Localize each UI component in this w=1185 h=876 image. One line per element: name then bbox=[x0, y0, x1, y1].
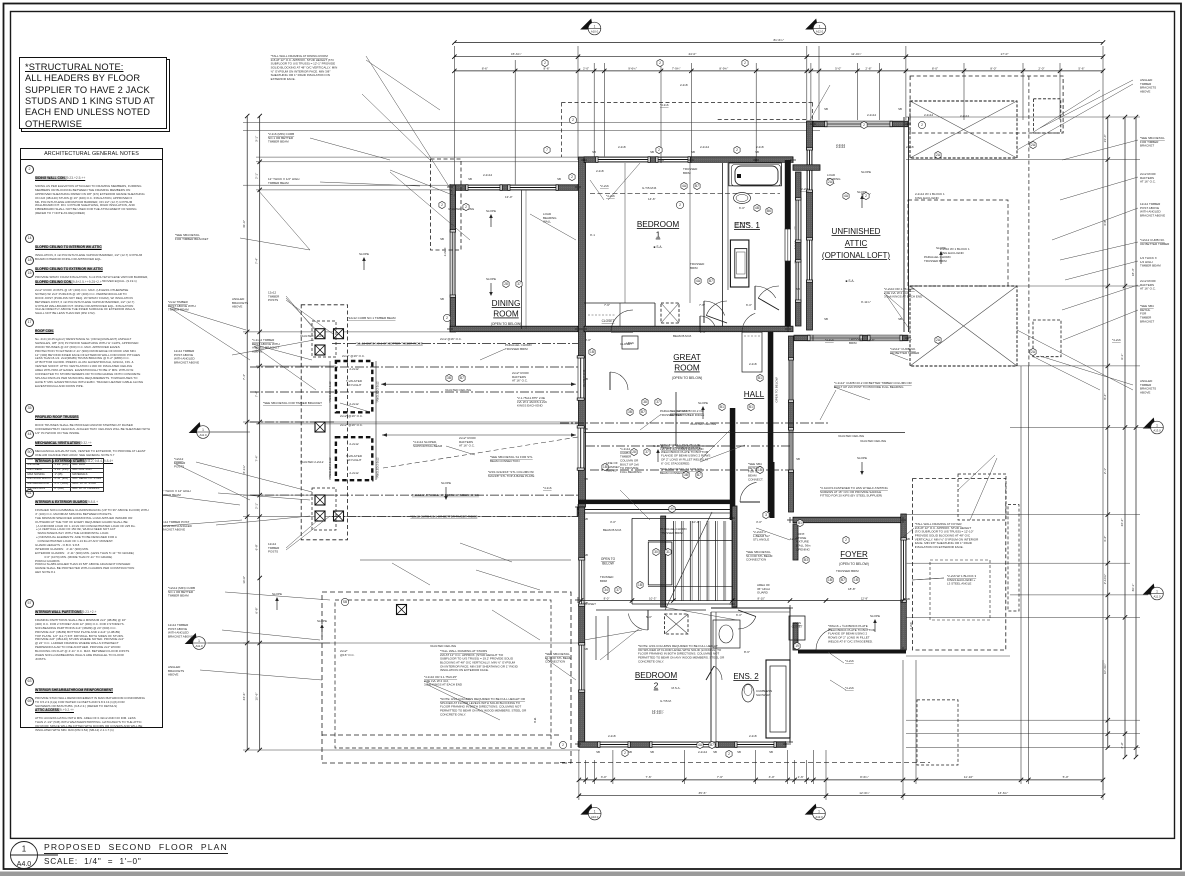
hex symbol 2-42 bbox=[742, 59, 748, 66]
svg-text:■ S.A.: ■ S.A. bbox=[654, 245, 663, 249]
section marker A11.0 left lower bbox=[185, 633, 206, 649]
svg-text:5'-6": 5'-6" bbox=[1078, 66, 1084, 70]
room label dining room bbox=[492, 299, 521, 319]
svg-text:12'-8": 12'-8" bbox=[790, 537, 798, 541]
svg-text:3'-0": 3'-0" bbox=[610, 520, 616, 524]
annotation 103 bbox=[820, 486, 889, 498]
dashed roof line top2 bbox=[718, 119, 806, 121]
svg-text:2'-8": 2'-8" bbox=[865, 66, 871, 70]
svg-text:10'-4¾": 10'-4¾" bbox=[1103, 664, 1107, 674]
svg-text:BELOW: BELOW bbox=[602, 562, 614, 566]
linen xbox bbox=[622, 336, 638, 349]
stair landing lines bbox=[660, 607, 737, 621]
annotation 8 bbox=[1140, 279, 1156, 291]
svg-text:SB: SB bbox=[584, 517, 588, 521]
svg-text:SB: SB bbox=[592, 150, 596, 154]
svg-text:1B: 1B bbox=[828, 578, 832, 582]
leader line 4 bbox=[1032, 90, 1100, 133]
ridge dash-dot line 1 bbox=[332, 343, 578, 345]
hall double door arc B bbox=[706, 301, 727, 323]
annotation 29 bbox=[342, 354, 365, 358]
leader line 17 bbox=[700, 430, 730, 460]
svg-text:SLOPE: SLOPE bbox=[486, 209, 496, 213]
annotation 96 bbox=[825, 338, 834, 342]
top dim row 2 bbox=[452, 52, 1105, 59]
svg-text:BRACKET ABOVE: BRACKET ABOVE bbox=[1140, 214, 1165, 218]
hall divider wall black bbox=[730, 408, 736, 520]
svg-text:VAULTED CEILING: VAULTED CEILING bbox=[445, 388, 472, 392]
svg-text:10'-0": 10'-0" bbox=[692, 520, 700, 524]
svg-text:3'-0": 3'-0" bbox=[601, 775, 607, 779]
annotation 60 bbox=[608, 734, 616, 738]
slope arrow 10 bbox=[317, 619, 327, 637]
annotation 7 bbox=[1140, 256, 1161, 268]
hex symbol B1-28 bbox=[757, 374, 763, 381]
annotation 136 bbox=[483, 173, 493, 177]
svg-text:2x12" @16" O.C.: 2x12" @16" O.C. bbox=[342, 354, 365, 358]
hex symbol B1-31 bbox=[797, 519, 803, 526]
annotation 18 bbox=[268, 542, 280, 554]
annotation 118 bbox=[736, 613, 742, 617]
ens1 right wall window bbox=[785, 229, 791, 261]
annotation 101 bbox=[834, 381, 913, 389]
annotation 16 bbox=[160, 489, 191, 497]
circle symbol 2-4 bbox=[676, 201, 683, 208]
bottom dim row 2 bbox=[577, 791, 1105, 798]
svg-text:*4-2x6: *4-2x6 bbox=[825, 338, 834, 342]
svg-text:2: 2 bbox=[921, 123, 923, 127]
left dashed sub-rect bbox=[312, 321, 336, 357]
svg-text:1B: 1B bbox=[638, 583, 642, 587]
leader line 14 bbox=[620, 490, 650, 520]
annotation 138 bbox=[660, 467, 703, 475]
svg-text:2-2x12: 2-2x12 bbox=[349, 402, 359, 406]
annotation 37 bbox=[459, 436, 476, 448]
svg-text:EXTERIOR FACE.: EXTERIOR FACE. bbox=[271, 77, 296, 81]
svg-text:30: 30 bbox=[654, 550, 658, 554]
annotation 49 bbox=[947, 574, 977, 586]
svg-text:SB: SB bbox=[584, 553, 588, 557]
svg-text:B1: B1 bbox=[720, 405, 724, 409]
svg-text:INSULATION ON EXTERIOR FACE.: INSULATION ON EXTERIOR FACE. bbox=[915, 545, 964, 549]
leader line 15 bbox=[756, 528, 790, 540]
svg-text:3: 3 bbox=[765, 513, 767, 517]
annotation 39 bbox=[517, 396, 547, 408]
svg-text:SKYLIGHT: SKYLIGHT bbox=[347, 458, 362, 462]
ens1 right wall black bbox=[785, 160, 791, 229]
foyer bottom wall bbox=[798, 650, 906, 654]
general note item 44 bbox=[24, 431, 158, 458]
top-right x-rect 1 bbox=[910, 101, 1017, 158]
svg-text:OPEN TO: OPEN TO bbox=[601, 557, 616, 561]
annotation 47 bbox=[440, 697, 527, 716]
svg-text:VAULTED CEILING: VAULTED CEILING bbox=[860, 439, 887, 443]
svg-text:FOR TIMBER BRACKET: FOR TIMBER BRACKET bbox=[175, 237, 209, 241]
annotation 106 bbox=[648, 197, 656, 201]
annotation 14 bbox=[174, 349, 199, 365]
svg-text:2-2x8: 2-2x8 bbox=[756, 145, 764, 149]
svg-text:3B: 3B bbox=[628, 410, 632, 414]
top-right x-rect 2 bbox=[910, 286, 1017, 366]
svg-text:SB: SB bbox=[584, 647, 588, 651]
svg-text:*ANGLED 2-2x12: *ANGLED 2-2x12 bbox=[328, 457, 332, 479]
svg-text:2-2x8: 2-2x8 bbox=[906, 145, 914, 149]
svg-text:SLOPE: SLOPE bbox=[317, 619, 327, 623]
annotation 6 bbox=[1140, 238, 1170, 246]
svg-text:GUARD: GUARD bbox=[757, 591, 769, 595]
annotation 100 bbox=[884, 287, 923, 299]
leader line 12 bbox=[460, 543, 512, 562]
svg-text:8'-10": 8'-10" bbox=[758, 596, 765, 600]
annotation 115 bbox=[848, 587, 856, 591]
annotation 88 bbox=[828, 624, 876, 643]
svg-text:TRUSSED BRIM: TRUSSED BRIM bbox=[836, 569, 859, 573]
svg-text:1: 1 bbox=[594, 24, 596, 28]
ens2 vanity bbox=[713, 620, 740, 648]
hex symbol B6-12 bbox=[766, 207, 772, 214]
svg-text:10'-6": 10'-6" bbox=[242, 576, 246, 584]
svg-text:*2-2x6: *2-2x6 bbox=[600, 184, 609, 188]
annotation 130 bbox=[268, 177, 299, 185]
svg-text:SLOPE: SLOPE bbox=[486, 277, 496, 281]
leader line 26 bbox=[970, 458, 997, 520]
svg-text:2: 2 bbox=[863, 123, 865, 127]
section marker A12.0 bottom bbox=[805, 804, 826, 820]
door arc ens1 wc bbox=[700, 316, 715, 332]
svg-text:SHOWER: SHOWER bbox=[756, 693, 770, 697]
hex symbol 4A-13 bbox=[681, 182, 687, 189]
svg-text:2: 2 bbox=[441, 203, 443, 207]
annotation 107 bbox=[590, 233, 595, 237]
svg-text:ABOVE: ABOVE bbox=[1140, 391, 1150, 395]
svg-text:VAULTED CEILING: VAULTED CEILING bbox=[430, 644, 457, 648]
annotation 36 bbox=[413, 440, 443, 448]
svg-text:BEDROOM: BEDROOM bbox=[635, 671, 677, 680]
hall east hatched band bbox=[789, 336, 794, 512]
dashed roof vert top bbox=[561, 103, 563, 158]
leader line 41 bbox=[170, 308, 250, 360]
svg-text:(OPEN TO BELOW): (OPEN TO BELOW) bbox=[672, 376, 703, 380]
annotation 68 bbox=[660, 409, 688, 417]
svg-text:AT 16" O.C.: AT 16" O.C. bbox=[1140, 287, 1156, 291]
x square 1 bbox=[315, 329, 325, 339]
annotation 99 bbox=[915, 192, 945, 200]
annotation 93 bbox=[800, 187, 809, 191]
svg-text:18'-4": 18'-4" bbox=[1131, 268, 1135, 276]
bedroom1/ens1 divider bbox=[722, 163, 724, 330]
annotation 72 bbox=[836, 569, 859, 573]
annotation 90 bbox=[845, 686, 854, 690]
svg-text:2'-0": 2'-0" bbox=[583, 66, 589, 70]
ridge dash-dot line 7 bbox=[560, 422, 830, 424]
hex symbol 28-19 bbox=[631, 448, 637, 455]
svg-text:HALL: HALL bbox=[744, 390, 765, 399]
annotation 9 bbox=[1140, 304, 1154, 323]
svg-text:2-2x12: 2-2x12 bbox=[349, 471, 359, 475]
top dim row 3 bbox=[452, 66, 1105, 73]
hex symbol 37-20 bbox=[644, 448, 650, 455]
dashed roof vert top right bbox=[812, 103, 814, 121]
annotation 114 bbox=[790, 537, 798, 541]
top-right small dashed sq 1 bbox=[1033, 99, 1060, 133]
annotation 52 bbox=[680, 83, 688, 87]
annotation 110 bbox=[620, 342, 632, 346]
svg-text:SB: SB bbox=[584, 477, 588, 481]
svg-text:SB: SB bbox=[713, 750, 717, 754]
door arc hall south bbox=[740, 482, 760, 502]
leader line 19 bbox=[590, 180, 604, 200]
svg-text:12'-6": 12'-6" bbox=[867, 338, 875, 342]
svg-text:BEAM B.M.M.: BEAM B.M.M. bbox=[603, 528, 622, 532]
svg-text:2-2x8: 2-2x8 bbox=[618, 145, 626, 149]
deck west wall bbox=[796, 172, 802, 326]
tub bbox=[735, 166, 778, 185]
annotation 50 bbox=[827, 173, 841, 185]
svg-text:1: 1 bbox=[1156, 423, 1158, 427]
leader line 40 bbox=[168, 306, 246, 330]
annotation 112 bbox=[861, 300, 871, 304]
general note item 57 bbox=[24, 600, 158, 662]
leader line 30 bbox=[545, 658, 576, 680]
svg-text:TIMBER BEAM: TIMBER BEAM bbox=[168, 594, 189, 598]
svg-text:1: 1 bbox=[1156, 589, 1158, 593]
general note item 63 bbox=[24, 678, 158, 709]
svg-text:SB: SB bbox=[755, 150, 759, 154]
svg-text:5'-0": 5'-0" bbox=[835, 66, 841, 70]
skylight box 2 bbox=[336, 437, 372, 480]
svg-text:SKYLIGHT: SKYLIGHT bbox=[347, 383, 362, 387]
svg-text:B7: B7 bbox=[695, 184, 699, 188]
ridge dash-dot line 5 bbox=[332, 516, 578, 518]
ens1 shower bbox=[730, 240, 749, 287]
svg-text:INSULATION ON EXTERIOR FACE.: INSULATION ON EXTERIOR FACE. bbox=[440, 668, 489, 672]
svg-text:ABOVE: ABOVE bbox=[1140, 90, 1150, 94]
annotation 139 bbox=[860, 439, 887, 443]
svg-text:B7: B7 bbox=[641, 410, 645, 414]
svg-text:BRACKET: BRACKET bbox=[1140, 319, 1154, 323]
svg-text:2'-0": 2'-0" bbox=[1038, 66, 1044, 70]
leader line 6 bbox=[362, 94, 430, 160]
svg-text:LINEN: LINEN bbox=[793, 621, 801, 625]
svg-text:SLOPE: SLOPE bbox=[870, 614, 880, 618]
hex symbol B7-24 bbox=[709, 741, 715, 748]
leader line 2 bbox=[390, 172, 470, 240]
annotation 74 bbox=[690, 262, 705, 270]
annotation 119 bbox=[744, 650, 750, 654]
annotation 120 bbox=[861, 192, 871, 196]
svg-text:6'-8": 6'-8" bbox=[255, 544, 259, 550]
svg-text:2x12" @16" O.C.: 2x12" @16" O.C. bbox=[340, 414, 363, 418]
svg-text:7'-4": 7'-4" bbox=[255, 455, 259, 461]
notes panel title bbox=[21, 149, 162, 160]
svg-text:35'-6": 35'-6" bbox=[699, 791, 707, 795]
svg-text:2: 2 bbox=[736, 148, 738, 152]
svg-text:6" O/C STAGGERED.: 6" O/C STAGGERED. bbox=[661, 461, 690, 465]
svg-text:VAULTED 2-2x12: VAULTED 2-2x12 bbox=[300, 334, 324, 338]
svg-text:KING EACH END: KING EACH END bbox=[940, 251, 965, 255]
hex symbol 2-44 bbox=[542, 59, 548, 66]
annotation 24 bbox=[300, 334, 324, 338]
svg-text:SLOPE: SLOPE bbox=[857, 456, 867, 460]
svg-text:43'-6": 43'-6" bbox=[242, 693, 246, 701]
annotation 105 bbox=[505, 195, 513, 199]
svg-text:*4-2x6: *4-2x6 bbox=[1112, 338, 1121, 342]
annotation 33 bbox=[430, 644, 457, 648]
attic top wall bbox=[813, 121, 908, 127]
svg-text:2-2x12: 2-2x12 bbox=[483, 173, 493, 177]
attic left wall window bbox=[807, 148, 813, 192]
svg-text:6'-0": 6'-0" bbox=[736, 613, 742, 617]
svg-text:28: 28 bbox=[632, 450, 636, 454]
svg-text:A13.0: A13.0 bbox=[1153, 429, 1161, 433]
svg-text:SLOPE: SLOPE bbox=[698, 401, 708, 405]
svg-text:2: 2 bbox=[845, 538, 847, 542]
ens2 shower bbox=[766, 660, 790, 738]
bottom exterior wall bbox=[579, 742, 786, 748]
fireplace xbox bbox=[661, 303, 679, 323]
bedroom1 top wall bbox=[584, 157, 793, 163]
svg-text:*4.2x6: *4.2x6 bbox=[543, 486, 552, 490]
annotation 48 bbox=[915, 522, 979, 549]
svg-text:3B: 3B bbox=[447, 376, 451, 380]
top-right dashed vert bbox=[1028, 76, 1030, 366]
svg-text:TRUSSED BRIM: TRUSSED BRIM bbox=[924, 259, 947, 263]
hex symbol 2A-6 bbox=[827, 178, 833, 185]
svg-text:SB: SB bbox=[557, 177, 561, 181]
foyer right wall window bbox=[901, 538, 907, 602]
attic top wall window bbox=[825, 121, 892, 127]
general note item 14 bbox=[24, 235, 158, 262]
svg-text:CLOSET: CLOSET bbox=[792, 624, 803, 628]
annotation 124 bbox=[906, 338, 912, 342]
title block: plan name and scale bbox=[0, 840, 400, 874]
ens1 dashed beam line bbox=[590, 192, 780, 194]
svg-text:■ S.A.: ■ S.A. bbox=[846, 279, 855, 283]
annotation 128 bbox=[584, 602, 596, 606]
stair internal dim line bbox=[579, 596, 905, 602]
stair left wall bbox=[661, 516, 666, 607]
svg-text:FOYER: FOYER bbox=[840, 550, 868, 559]
leader line 42 bbox=[174, 463, 250, 500]
svg-text:SB: SB bbox=[824, 107, 828, 111]
stair dimension table bbox=[25, 458, 104, 492]
slope arrow 6 bbox=[272, 592, 282, 610]
annotation 109 bbox=[700, 330, 706, 334]
annotation 69 bbox=[505, 343, 533, 351]
leader line 35 bbox=[834, 387, 870, 400]
dashed roof line top bbox=[562, 102, 813, 104]
annotation 62 bbox=[698, 750, 708, 754]
svg-text:ABOVE: ABOVE bbox=[168, 673, 178, 677]
svg-text:VAULTED CEILING: VAULTED CEILING bbox=[838, 434, 865, 438]
left tall dashed rect bbox=[301, 305, 347, 540]
svg-text:B7: B7 bbox=[460, 376, 464, 380]
hex symbol 37-18 bbox=[655, 398, 661, 405]
bottom dashed long line bbox=[560, 761, 930, 763]
svg-text:2'-1": 2'-1" bbox=[1103, 468, 1107, 474]
svg-text:WELDS AT 6" O/C STAGGERED.: WELDS AT 6" O/C STAGGERED. bbox=[828, 639, 873, 643]
door arc bedroom1 entry bbox=[611, 310, 633, 332]
svg-text:B1: B1 bbox=[749, 405, 753, 409]
annotation 40 bbox=[490, 455, 533, 463]
right mid dashed rect bbox=[908, 200, 1008, 286]
title block separator (inner bottom reused) bbox=[11, 835, 1175, 837]
annotation 55 bbox=[756, 145, 764, 149]
dining top wall windows bbox=[466, 185, 502, 191]
svg-text:37: 37 bbox=[656, 400, 660, 404]
sloped roof dashed diagonal bbox=[383, 437, 578, 468]
svg-text:B6: B6 bbox=[767, 209, 771, 213]
annotation 53 bbox=[596, 169, 604, 173]
leader line 3 bbox=[258, 190, 310, 250]
hex symbol 2-2 bbox=[439, 201, 445, 208]
stair hex pair bbox=[603, 586, 609, 593]
svg-text:BRACKET: BRACKET bbox=[1140, 144, 1154, 148]
hall double door arc A bbox=[704, 301, 725, 323]
svg-text:4B: 4B bbox=[755, 206, 759, 210]
svg-text:2: 2 bbox=[624, 751, 626, 755]
bedroom1 top wall windows bbox=[596, 157, 650, 163]
annotation 95 bbox=[606, 194, 615, 198]
svg-text:2'-10¾": 2'-10¾" bbox=[1103, 574, 1107, 584]
great room/hall left wall (cont of divider) bbox=[577, 507, 584, 516]
hex symbol 3B-21 bbox=[446, 374, 452, 381]
svg-text:1B: 1B bbox=[603, 465, 607, 469]
svg-text:*SEE SB4 DETAIL FOR TIMBER BRA: *SEE SB4 DETAIL FOR TIMBER BRACKET bbox=[263, 401, 322, 405]
leader line 9 bbox=[210, 431, 248, 433]
svg-text:4'-4": 4'-4" bbox=[1103, 536, 1107, 542]
svg-text:14'-11¾": 14'-11¾" bbox=[652, 709, 664, 713]
annotation 41 bbox=[488, 470, 534, 478]
annotation 66 bbox=[753, 530, 770, 542]
annotation 64 bbox=[652, 711, 664, 715]
svg-text:SLOPE: SLOPE bbox=[441, 481, 451, 485]
svg-text:1: 1 bbox=[818, 809, 820, 813]
svg-text:L3 STEEL ANGLE: L3 STEEL ANGLE bbox=[947, 582, 971, 586]
circle symbol 2-0 bbox=[569, 116, 576, 123]
svg-text:2: 2 bbox=[679, 203, 681, 207]
leader line 37 bbox=[890, 353, 908, 360]
svg-text:18'-8": 18'-8" bbox=[848, 587, 856, 591]
vaulted span arrow 1 bbox=[381, 383, 576, 385]
structural note box bbox=[19, 57, 167, 129]
hex symbol B7-16 bbox=[708, 277, 714, 284]
hex symbol 1B-32 bbox=[827, 576, 833, 583]
svg-text:17'-0": 17'-0" bbox=[1001, 52, 1009, 56]
leader line 32 bbox=[600, 628, 640, 660]
svg-text:B7: B7 bbox=[697, 473, 701, 477]
svg-text:*ANGLED 2-2x12: *ANGLED 2-2x12 bbox=[376, 457, 380, 479]
svg-text:BRACKET ABOVE: BRACKET ABOVE bbox=[174, 361, 199, 365]
svg-text:OR BETTER TIMBER: OR BETTER TIMBER bbox=[1140, 242, 1170, 246]
svg-text:7'-6": 7'-6" bbox=[646, 775, 652, 779]
svg-text:8'-4": 8'-4" bbox=[1103, 394, 1107, 400]
leader line 33 bbox=[584, 630, 642, 640]
bottom dashed long line left bbox=[322, 734, 560, 736]
stair break diagonal bbox=[665, 512, 712, 610]
svg-text:13'-0": 13'-0" bbox=[505, 195, 513, 199]
hex symbol B7-14 bbox=[694, 182, 700, 189]
svg-text:SB: SB bbox=[906, 597, 910, 601]
slope arrow 12 bbox=[857, 456, 867, 475]
svg-text:BRIM: BRIM bbox=[849, 341, 857, 345]
svg-text:BEAM CONNECTION: BEAM CONNECTION bbox=[490, 459, 520, 463]
svg-text:3B: 3B bbox=[684, 473, 688, 477]
svg-text:2: 2 bbox=[465, 205, 467, 209]
top dim row overall 81'-6 3/4 bbox=[452, 38, 1105, 45]
ens2 wc bbox=[742, 684, 754, 702]
annotation 108 bbox=[739, 206, 745, 210]
